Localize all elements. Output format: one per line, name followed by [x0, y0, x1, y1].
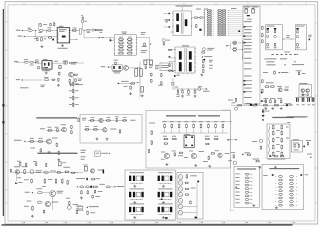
filter cell 2 caps: [274, 30, 275, 33]
bank diode D9111: [207, 33, 212, 34]
arrow left CRT: [235, 186, 237, 187]
diamond junction: [310, 157, 312, 158]
arrow AC_IN: [241, 154, 243, 155]
label C803: [34, 37, 38, 40]
parts Q701-Q702: [174, 152, 176, 156]
net REG_IN junction: [108, 66, 110, 67]
label L804: [30, 64, 34, 67]
ground CN501: [133, 185, 136, 188]
posistor: [263, 104, 268, 106]
section title: [166, 115, 196, 116]
ground CRT socket: [252, 204, 255, 207]
bank diode D917: [207, 24, 212, 25]
resistor R941: [232, 42, 237, 43]
label H DRIVE: [25, 191, 30, 194]
parts right col: [298, 72, 300, 76]
scan edge artifact bottom: [2, 224, 293, 225]
LF801 pins bottom: [43, 66, 48, 69]
transistor Q503: [15, 170, 19, 174]
label Q505: [57, 190, 64, 193]
relay part: [274, 104, 279, 106]
diode D711: [228, 139, 230, 140]
resistor R803: [48, 37, 52, 38]
ground: [181, 95, 184, 98]
fuse holder box: [79, 29, 81, 35]
wire: [119, 82, 131, 84]
bank pin 2: [204, 12, 205, 13]
bank filter C922: [217, 14, 222, 15]
box2 choke: [296, 28, 298, 30]
CN901 pin 1 label: [244, 20, 252, 23]
bank diode D919: [207, 28, 212, 29]
protect grounds: [96, 137, 99, 140]
resistor R953: [270, 86, 275, 88]
ground: [194, 95, 197, 98]
bank pin 7: [204, 22, 205, 23]
wire bridge: [52, 62, 62, 64]
arrow out right: [236, 139, 238, 140]
bridge rectifier D801: [63, 61, 66, 64]
capacitor C807: [95, 29, 98, 30]
harness pin 7 right: [290, 197, 294, 199]
wire right chain: [148, 38, 150, 60]
RL951 internal: [294, 144, 295, 148]
IC801 pins right: [68, 29, 69, 31]
part below: [87, 211, 89, 215]
harness pin 1 left: [279, 175, 283, 177]
ground: [31, 215, 34, 218]
bank filter C927: [217, 24, 222, 25]
T901 pins left: [173, 13, 174, 14]
inductor L803: [92, 29, 96, 31]
choke block CN502 bars: [158, 176, 160, 181]
transistor Q701: [164, 153, 169, 158]
net label AC_N: [16, 29, 21, 32]
CN901 pin 3 label: [244, 28, 252, 31]
array resistor row 5 left: [118, 52, 124, 54]
array capacitor row 1 right: [127, 38, 133, 40]
relay RL951 box: [292, 141, 303, 153]
wire AC row: [231, 104, 291, 106]
ground: [141, 94, 144, 97]
wire: [228, 28, 243, 30]
spark gap SG6: [178, 204, 183, 209]
IC801 pins left: [57, 32, 58, 34]
bank pin 12: [204, 33, 205, 34]
output filter bank box: [125, 170, 175, 220]
capacitor C803: [37, 37, 38, 41]
net +B label: [308, 34, 312, 37]
capacitor C916 electrolytic: [140, 69, 143, 77]
bank diode D918: [207, 26, 212, 27]
label SW TRANSFORMER: [176, 6, 193, 7]
CN901 pin 15 label: [243, 80, 245, 81]
capacitor C510: [19, 162, 21, 166]
capacitor C953 plates: [295, 98, 298, 102]
bank pin 4: [204, 16, 205, 17]
pin label text row: [268, 158, 286, 161]
fuse F803: [44, 79, 48, 81]
transistor Q706: [103, 128, 107, 132]
wire: [37, 24, 39, 31]
ground CN503: [133, 201, 136, 204]
label TO CRT: [207, 47, 214, 50]
bank diode D910: [207, 10, 212, 11]
wire: [143, 59, 153, 61]
wire: [228, 9, 243, 11]
capacitor C826: [194, 90, 196, 94]
transistor Q501: [62, 127, 67, 132]
filter caps top rail: [162, 121, 232, 123]
bank pin 6: [204, 20, 205, 21]
CRT pin 1: [235, 173, 239, 176]
wire: [228, 18, 243, 20]
parts row2: [44, 179, 46, 184]
resistor R806: [74, 74, 78, 75]
protect row1 extra labels: [91, 116, 95, 119]
row y186 arrow: [76, 186, 78, 187]
resistor pair R507: [56, 172, 61, 174]
video output box: [177, 172, 203, 219]
T901 primary winding lower: [176, 24, 179, 32]
capacitor C951 electrolytic: [245, 9, 248, 13]
bottom-left texts of J: [81, 149, 87, 152]
wire feed: [227, 45, 230, 47]
bank pin 5: [204, 18, 205, 19]
protect parts right: [106, 120, 111, 122]
net B+ ADJ arrow: [117, 83, 119, 85]
bank diode D9112: [207, 35, 212, 36]
resistor R811: [72, 90, 74, 93]
node AC_N junction: [22, 30, 24, 31]
IC951 internal transistors: [301, 89, 305, 93]
resistor R917: [151, 79, 153, 83]
capacitor C511: [26, 163, 27, 167]
dashed feed line: [272, 53, 274, 56]
pad: [250, 104, 252, 106]
border zone numbers bottom: [21, 221, 23, 224]
filter capacitor C736: [207, 120, 211, 123]
ground CN504: [162, 201, 165, 204]
ground: [57, 158, 60, 161]
choke block CN503 bottom wire: [130, 198, 143, 200]
G bottom cluster coil: [234, 107, 237, 110]
bank diode D912: [207, 14, 212, 15]
parts right of CN901 lower: [262, 79, 264, 83]
text under relay: [113, 70, 122, 73]
wire lower row: [16, 78, 20, 81]
CRT pin 5: [235, 187, 239, 190]
T902 pins left: [175, 49, 176, 50]
degauss coil winding: [268, 126, 270, 155]
scan edge artifact left: [3, 9, 4, 216]
CN901 pin 12 label: [244, 62, 252, 65]
vertical chain right: [69, 201, 71, 205]
wire: [70, 38, 78, 40]
bus: [196, 183, 198, 216]
capacitor C955 plates: [306, 98, 309, 102]
degauss chain col 1: [272, 125, 274, 130]
resistor R615 label: [172, 82, 174, 85]
node junction: [98, 37, 100, 38]
wire: [32, 30, 37, 32]
resistor R813: [72, 103, 74, 106]
T901 pins right: [191, 18, 192, 19]
bank filter C920: [217, 10, 222, 11]
choke block CN506 bars: [158, 207, 160, 212]
text left of thermistor: [252, 140, 257, 143]
choke block CN504 title: [158, 188, 173, 191]
node junction: [198, 17, 200, 18]
resistor R954: [284, 89, 288, 90]
harness pin 9 right: [290, 204, 294, 206]
bank diode D916: [207, 22, 212, 23]
wire: [228, 20, 243, 22]
parts right of CN901: [262, 26, 264, 30]
fuse F801: [28, 30, 32, 32]
node: [282, 104, 285, 107]
protect row1 parts: [90, 120, 95, 122]
standby cluster rows: [265, 99, 267, 103]
T901 core: [181, 13, 183, 34]
bank filter C923: [217, 16, 222, 17]
label DRIVE TRANSFORMER: [182, 44, 189, 47]
box title: [267, 25, 275, 28]
capacitor C915 electrolytic: [135, 69, 138, 77]
label TNY266: [58, 47, 68, 50]
array resistor row 4 left: [118, 49, 124, 51]
input arrow: [10, 169, 11, 172]
spark gap SG3: [178, 187, 183, 192]
wire CN feed bus: [242, 40, 244, 60]
choke block CN502 bottom wire: [158, 182, 171, 184]
label C504: [66, 197, 70, 200]
T902 winding right lower: [189, 62, 192, 71]
text lines right margin: [287, 116, 306, 117]
diode D905: [200, 16, 202, 18]
capacitor C921: [166, 19, 167, 22]
label R511: [17, 176, 21, 179]
parts right of Q702: [208, 156, 210, 160]
bank filter C9212: [217, 35, 222, 36]
T902 winding left lower: [179, 62, 182, 71]
filter cell 1 bottom parts: [267, 43, 269, 46]
array title: [122, 31, 128, 34]
spark gap SG1: [178, 175, 183, 180]
K lower labels: [172, 150, 176, 153]
bank diode D9110: [207, 30, 212, 31]
net text: [231, 101, 235, 104]
capacitor C501: [44, 171, 49, 173]
varistor RV802: [188, 90, 190, 94]
diode D503: [15, 182, 17, 184]
array capacitor row 5 right: [127, 52, 133, 54]
pads on divider: [262, 111, 264, 112]
transistor Q901: [124, 66, 129, 71]
transistor Q702: [191, 153, 196, 158]
net PWM label: [14, 139, 22, 142]
ground CN502: [162, 185, 165, 188]
capacitor C917: [130, 86, 132, 90]
protect row2 labels: [85, 125, 89, 128]
filter bus: [161, 132, 229, 134]
IC801 internal element: [62, 36, 66, 38]
harness pin 3 right: [290, 183, 294, 185]
CN901 pin 9 label: [244, 47, 252, 50]
label FETHER SIDE DRIVER title: [38, 153, 78, 154]
ground Q802: [69, 83, 72, 86]
parts below: [56, 143, 58, 147]
T902 winding left upper: [179, 51, 182, 59]
inner parts near box right: [151, 130, 153, 135]
resistor R808: [75, 79, 77, 82]
transistor Q504: [30, 170, 34, 174]
pad row1: [197, 181, 199, 183]
wire: [43, 30, 47, 32]
label WAKE UP: [101, 152, 108, 155]
filter capacitor C734: [192, 120, 196, 123]
wire: [128, 67, 140, 69]
capacitor C530 electrolytic: [84, 166, 87, 171]
CRT pin 8: [235, 198, 239, 201]
grounds lower row: [165, 163, 168, 166]
net label top 1: [196, 8, 201, 11]
parts above box: [162, 39, 165, 42]
border zone letter ticks right: [315, 22, 318, 24]
capacitor C918 electrolytic: [141, 87, 144, 92]
bank pin 1: [204, 10, 205, 11]
part: [43, 210, 45, 214]
dark component: [103, 169, 105, 173]
drive row1 text: [40, 127, 45, 130]
label DEGAUSS COIL CIRCUIT: [272, 117, 294, 118]
resistor R921: [194, 17, 198, 18]
spark gap SG7: [178, 210, 183, 215]
connector box CRT SOCKET: [234, 167, 259, 208]
filter capacitor C730: [163, 120, 167, 123]
rectifier D910: [202, 69, 204, 73]
net label +310V: [71, 61, 77, 64]
choke block CN501 bottom wire: [130, 182, 143, 184]
bank filter C929: [217, 28, 222, 29]
choke block CN503 bars: [129, 192, 131, 197]
right section frame lines: [229, 110, 231, 211]
wire: [110, 186, 114, 188]
capacitor C922: [195, 24, 197, 28]
IC701 internal pads: [185, 136, 187, 138]
grounds standby: [264, 107, 267, 110]
degauss box: [267, 124, 290, 159]
filter cell 1 caps: [267, 30, 268, 33]
hot/cold section box: [146, 111, 230, 169]
text: [36, 169, 42, 172]
filter capacitor C737: [214, 120, 218, 123]
resistor R515: [46, 163, 47, 167]
resistor R951: [274, 71, 276, 75]
feedback chain (quadrant E bottom): [72, 77, 74, 108]
resistor R810: [72, 83, 74, 86]
bank diode D913: [207, 16, 212, 17]
dashed line arrowhead: [297, 54, 299, 55]
array capacitor row 4 right: [127, 49, 133, 51]
bank filter C9211: [217, 33, 222, 34]
snubber pad: [199, 29, 201, 31]
capacitor C914 electrolytic: [149, 60, 152, 65]
neon lamp NE801: [81, 20, 84, 23]
protect row2 wire: [84, 128, 102, 130]
choke block CN506 bottom wire: [158, 213, 171, 215]
net STANDBY junction: [278, 72, 280, 73]
protect circuit box: [80, 115, 142, 144]
net +12V junction: [202, 56, 204, 57]
choke block CN504 bars: [158, 192, 160, 197]
wire: [228, 26, 243, 28]
wire: [71, 62, 84, 64]
wire drop2: [45, 31, 47, 34]
connector CN901 box: [243, 6, 260, 104]
degauss chain col 2: [281, 125, 283, 130]
harness pin 2 left: [279, 179, 283, 181]
choke block CN504 bottom wire: [158, 198, 171, 200]
resistor R923: [168, 70, 172, 71]
transistor Q703: [218, 153, 222, 157]
capacitor C805: [72, 30, 77, 32]
wire drop: [35, 31, 37, 37]
row3 part: [185, 188, 189, 189]
wire: [228, 34, 243, 36]
net stub top: [81, 14, 83, 17]
filter cell 2 bottom parts: [274, 43, 276, 46]
harness pin 8 right: [290, 201, 294, 203]
capacitor C801: [40, 23, 41, 26]
protect row2: [85, 129, 90, 131]
resistor R809: [58, 78, 59, 82]
inductor L804: [30, 61, 34, 63]
transformer T901 box: [173, 11, 192, 35]
T902 winding right upper: [189, 51, 192, 59]
ground: [129, 92, 132, 95]
wire: [228, 13, 243, 15]
resistor pair R508: [64, 171, 69, 173]
relay RL901 box: [112, 65, 122, 70]
wire: [111, 39, 114, 41]
text right of array: [141, 31, 146, 34]
ground CN506: [162, 216, 165, 219]
junction pad left of CN901: [238, 30, 240, 32]
drive row2 wire: [27, 140, 48, 142]
resistor R915: [115, 62, 117, 65]
ground: [262, 114, 265, 117]
harness pin 4 right: [290, 186, 294, 188]
net label row 1: [264, 58, 266, 59]
capacitor C952 electrolytic: [252, 9, 255, 13]
transistor Q530: [90, 169, 94, 173]
CRT pin 2: [235, 176, 239, 179]
choke block CN503 title: [130, 188, 145, 191]
harness pin 3 left: [279, 183, 283, 185]
bank pin 11: [204, 31, 205, 32]
capacitor C820: [35, 62, 39, 63]
part right: [71, 172, 75, 173]
junction pad below T902: [174, 75, 176, 77]
diode D906: [169, 56, 171, 57]
filter cell 1 choke: [267, 28, 269, 30]
pad left harness: [272, 174, 274, 176]
filter capacitor C738: [221, 120, 225, 123]
junction arrow: [150, 43, 152, 44]
part left low: [38, 66, 39, 69]
pad left of caps: [286, 104, 288, 106]
